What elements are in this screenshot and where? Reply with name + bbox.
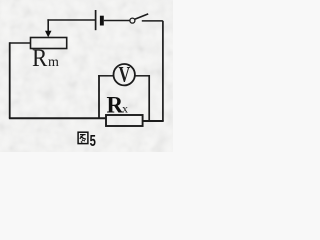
svg-text:x: x [122, 101, 128, 115]
wire: bottom wire [9, 117, 106, 119]
wire: Rx right lead [143, 120, 164, 122]
resistor Rx body [106, 115, 143, 126]
wire: right vertical wire [162, 21, 164, 121]
wire: rheostat left lead [10, 42, 31, 44]
caption 图5 : hanzi TU drawn as strokes [78, 132, 88, 143]
wire: rheostat slider arrow stem [47, 19, 49, 31]
wire: top wire from rheostat slider to battery [47, 19, 95, 21]
voltmeter V glyph [119, 63, 131, 87]
label Rx [107, 93, 129, 118]
svg-text:m: m [48, 55, 59, 70]
svg-text:R: R [107, 93, 124, 118]
caption digit 5 [90, 131, 96, 150]
svg-text:V: V [119, 63, 131, 87]
wire: voltmeter left vertical [98, 75, 100, 118]
battery short plate (negative) [100, 16, 104, 26]
wire: voltmeter left horizontal [98, 75, 113, 77]
battery long plate (positive) [95, 10, 97, 30]
voltmeter V (meter body) [114, 64, 135, 85]
label Rm [32, 45, 59, 72]
wire: battery to switch [104, 20, 130, 22]
wire: switch to top-right corner [142, 20, 163, 22]
wire: left vertical wire [9, 42, 11, 118]
svg-text:R: R [32, 45, 47, 72]
switch S pivot [130, 18, 135, 23]
wire: voltmeter right horizontal [135, 75, 150, 77]
wire: voltmeter right vertical [148, 75, 150, 121]
svg-text:5: 5 [90, 131, 96, 150]
resistor Rm (rheostat body) [31, 38, 67, 49]
rheostat slider arrowhead [45, 31, 52, 38]
switch S lever (open) [135, 14, 149, 19]
